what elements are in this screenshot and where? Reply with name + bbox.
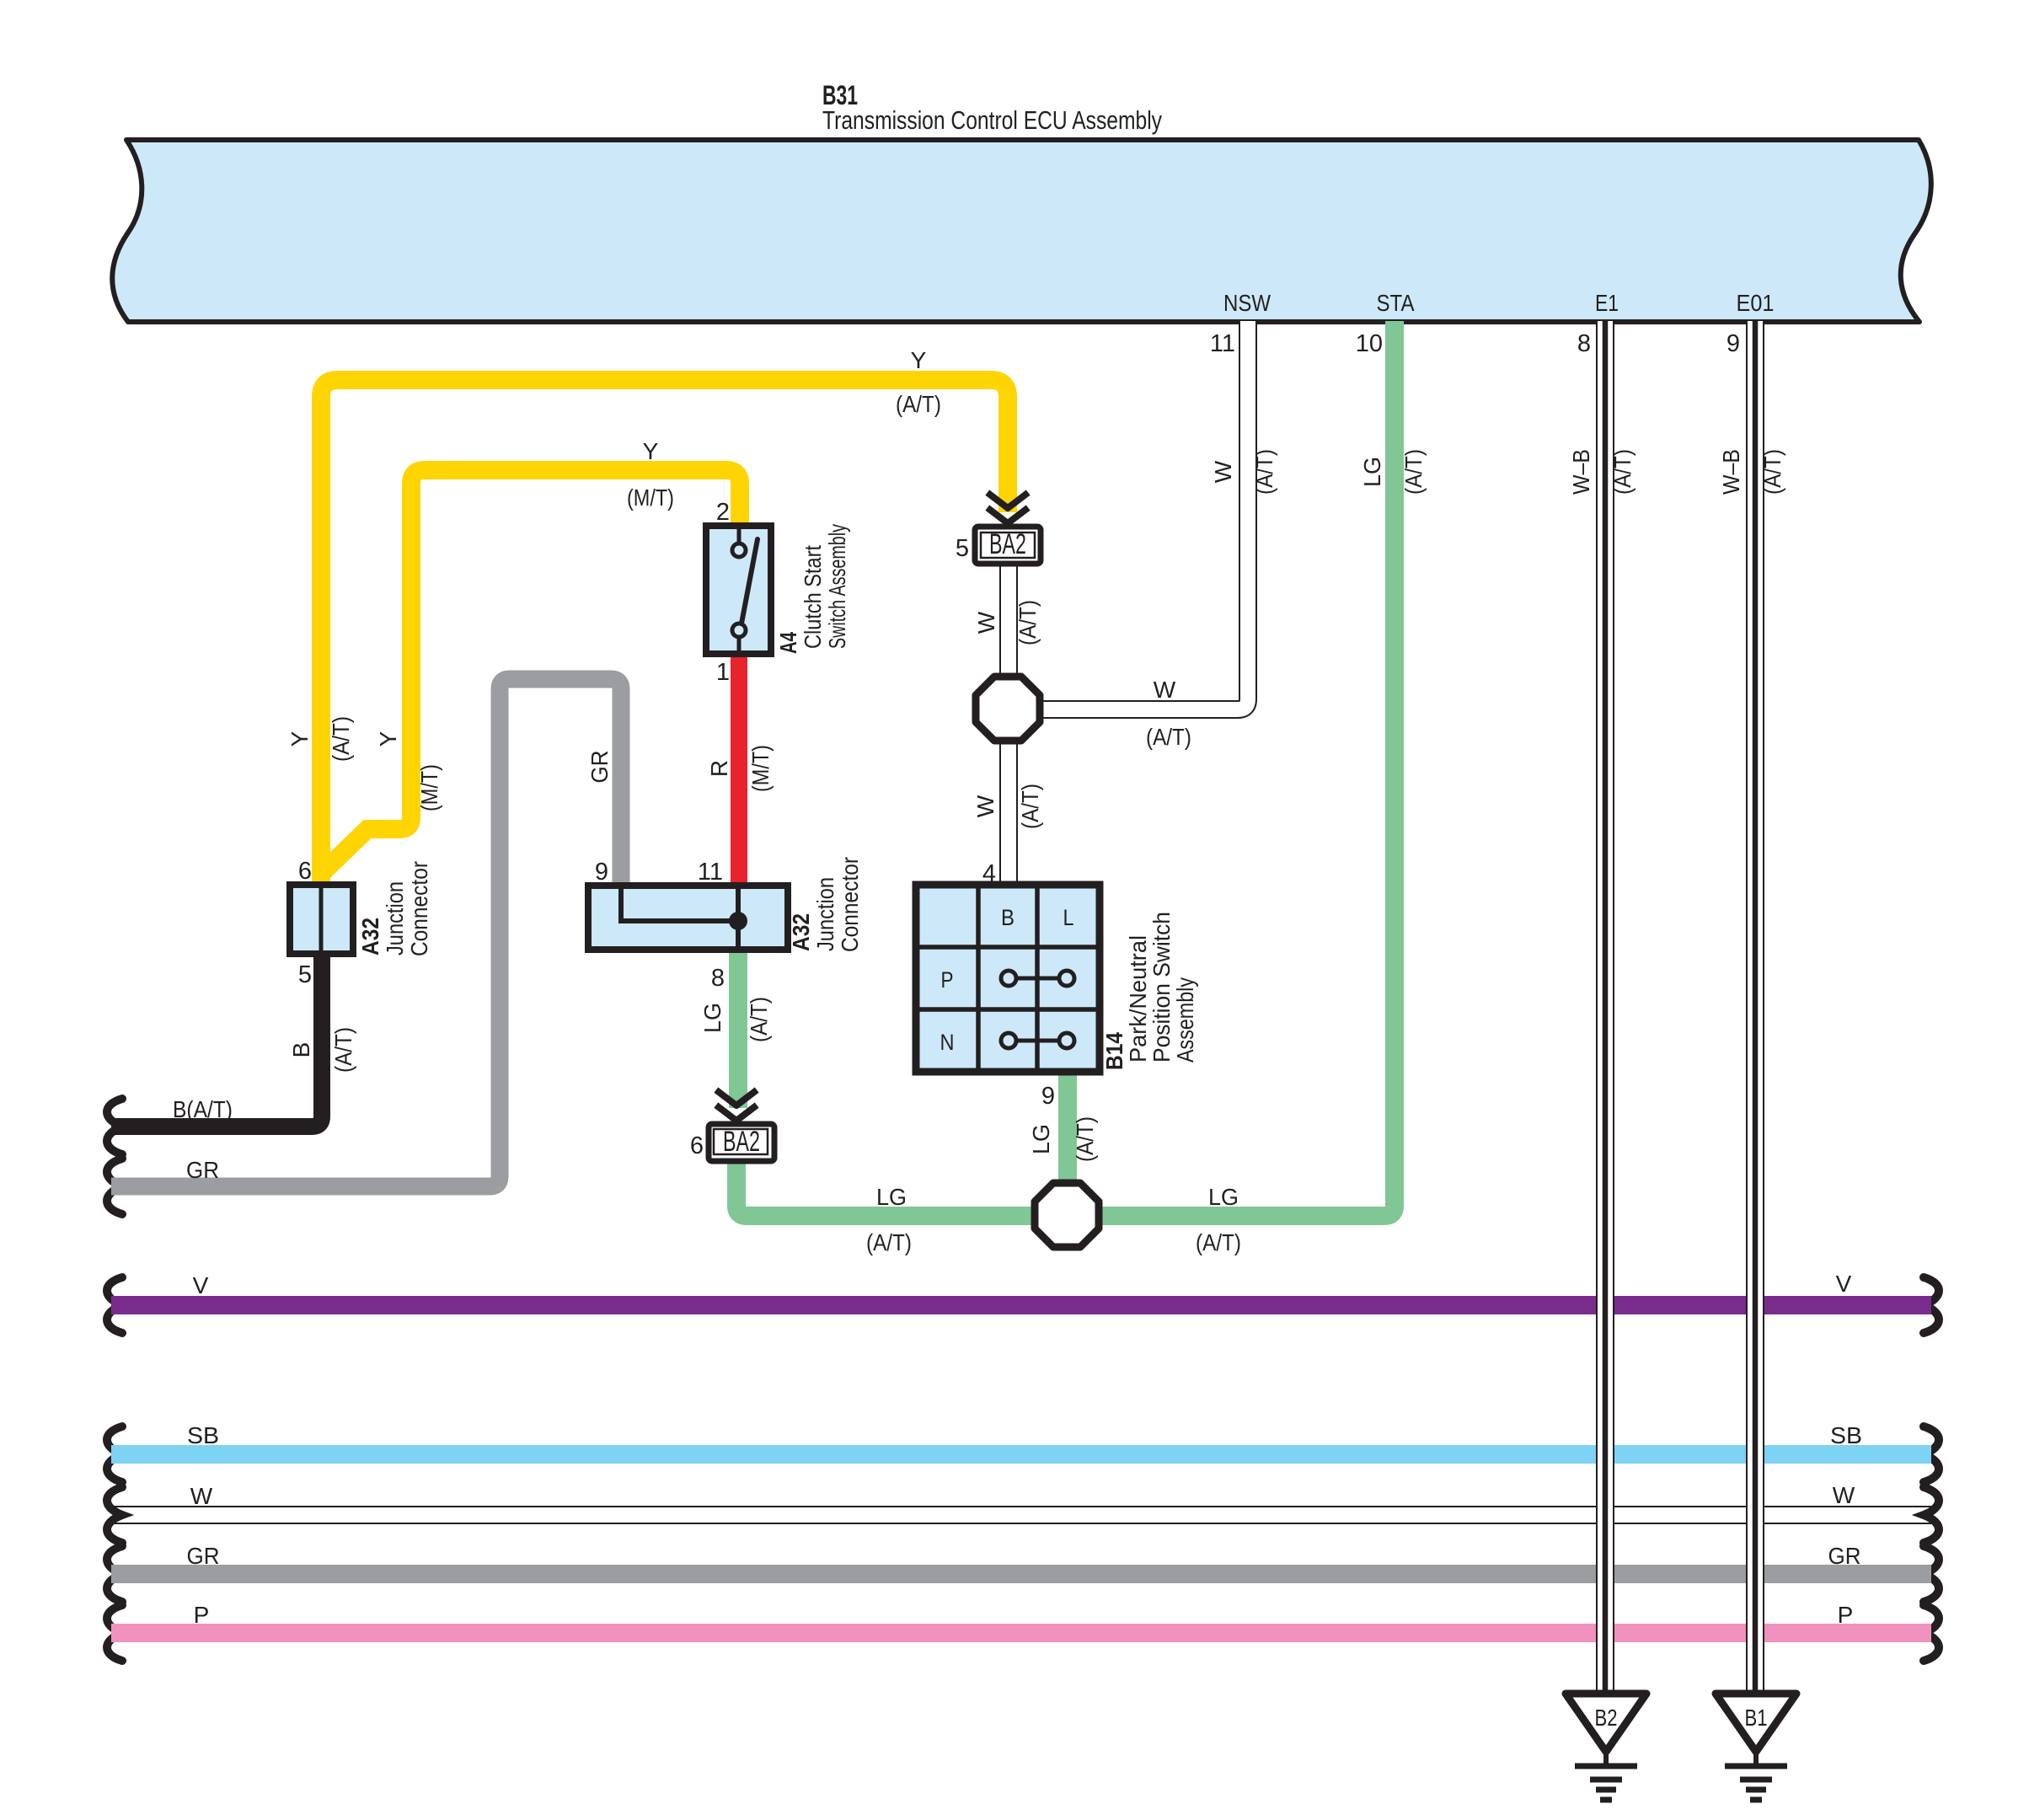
ground B2 bbox=[1566, 1694, 1646, 1752]
svg-text:BA2: BA2 bbox=[989, 528, 1026, 560]
svg-text:(A/T): (A/T) bbox=[330, 1027, 356, 1073]
svg-text:GR: GR bbox=[586, 751, 613, 784]
wire LG (A/T) park/neutral switch pin9 down to splice bbox=[1058, 1072, 1077, 1216]
connector BA2 (bottom, pin6) bbox=[709, 1124, 774, 1161]
splice octagon (W wires junction) bbox=[976, 677, 1040, 741]
wire V horizontal tail bbox=[111, 1296, 1931, 1314]
svg-text:(A/T): (A/T) bbox=[896, 391, 941, 417]
torn end of wire V right bbox=[1924, 1277, 1939, 1333]
svg-text:(A/T): (A/T) bbox=[1400, 449, 1427, 495]
wire SB horizontal tail bbox=[111, 1445, 1931, 1464]
torn end of wire P left bbox=[107, 1605, 122, 1661]
svg-text:6: 6 bbox=[690, 1132, 704, 1159]
svg-text:9: 9 bbox=[595, 859, 608, 886]
svg-text:6: 6 bbox=[298, 858, 312, 885]
torn end of wire W right bbox=[1924, 1487, 1939, 1543]
svg-text:W: W bbox=[1833, 1482, 1855, 1508]
svg-text:(A/T): (A/T) bbox=[1251, 449, 1277, 495]
torn end of wire GR right bbox=[1924, 1546, 1939, 1602]
svg-text:11: 11 bbox=[1210, 330, 1235, 357]
svg-text:STA: STA bbox=[1377, 290, 1415, 316]
svg-text:(A/T): (A/T) bbox=[1072, 1116, 1098, 1162]
svg-text:Y: Y bbox=[375, 731, 401, 747]
svg-text:B2: B2 bbox=[1595, 1705, 1618, 1731]
svg-text:Connector: Connector bbox=[837, 857, 863, 952]
torn end of wire GR (upper) bbox=[107, 1159, 122, 1214]
svg-text:B: B bbox=[288, 1042, 314, 1058]
torn end of wire SB left bbox=[107, 1427, 122, 1482]
svg-text:LG: LG bbox=[1359, 457, 1385, 487]
torn end of wire W left bbox=[107, 1487, 122, 1543]
svg-text:LG: LG bbox=[1028, 1124, 1054, 1154]
svg-text:W–B: W–B bbox=[1568, 449, 1594, 495]
svg-text:B1: B1 bbox=[1745, 1705, 1768, 1731]
svg-text:Clutch Start: Clutch Start bbox=[800, 545, 826, 649]
torn end of wire V left bbox=[107, 1277, 122, 1333]
torn end of wire P right bbox=[1924, 1605, 1939, 1661]
junction connector A32 (left) bbox=[290, 885, 353, 954]
B14 contact row P bbox=[1016, 977, 1059, 981]
svg-text:1: 1 bbox=[716, 659, 730, 686]
svg-text:GR: GR bbox=[186, 1157, 219, 1183]
switch A4 Clutch Start Switch Assembly bbox=[706, 526, 771, 654]
wire Y (A/T) from junction connector A32 pin6 up and right to BA2 arrow bbox=[321, 380, 1008, 886]
svg-text:(M/T): (M/T) bbox=[627, 484, 674, 511]
svg-text:9: 9 bbox=[1727, 330, 1740, 357]
svg-text:Y: Y bbox=[643, 438, 659, 464]
svg-text:5: 5 bbox=[956, 535, 969, 562]
svg-text:LG: LG bbox=[876, 1184, 907, 1210]
arrow chevrons into BA2 (yellow wire) bbox=[990, 495, 1025, 523]
wire W (A/T) ECU pin NSW down and left to splice bbox=[1008, 321, 1248, 709]
svg-text:R: R bbox=[706, 760, 732, 777]
svg-text:A32: A32 bbox=[357, 918, 383, 955]
svg-text:LG: LG bbox=[699, 1003, 725, 1033]
svg-text:(A/T): (A/T) bbox=[1146, 724, 1191, 750]
wire W (A/T) BA2 down through splice to park/neutral switch pin4 bbox=[999, 566, 1018, 885]
svg-text:SB: SB bbox=[1830, 1422, 1862, 1448]
wire W-B (A/T) ECU pin E01 down to ground B1 bbox=[1746, 321, 1764, 1694]
svg-text:B(A/T): B(A/T) bbox=[173, 1096, 233, 1122]
arrow chevrons into BA2 (green wire) bbox=[719, 1092, 754, 1121]
svg-text:(A/T): (A/T) bbox=[1759, 449, 1785, 495]
svg-text:Switch Assembly: Switch Assembly bbox=[824, 524, 850, 649]
svg-text:(A/T): (A/T) bbox=[1014, 600, 1041, 645]
svg-text:(A/T): (A/T) bbox=[866, 1229, 912, 1255]
wire B (A/T) from junction connector A32 pin5 down and left bbox=[111, 954, 322, 1127]
svg-text:W: W bbox=[1210, 460, 1236, 483]
connector BA2 (top, pin5) bbox=[975, 527, 1041, 564]
wire W-B (A/T) ECU pin E1 down to ground B2 bbox=[1596, 321, 1614, 1694]
svg-text:2: 2 bbox=[716, 499, 730, 526]
torn end of wire B(A/T) bbox=[107, 1099, 122, 1154]
svg-text:E01: E01 bbox=[1737, 290, 1775, 316]
splice octagon (LG wires junction) bbox=[1035, 1183, 1099, 1247]
svg-text:9: 9 bbox=[1041, 1083, 1055, 1110]
svg-text:N: N bbox=[940, 1030, 955, 1055]
svg-text:LG: LG bbox=[1208, 1184, 1239, 1210]
wire W horizontal tail (white wire) bbox=[111, 1506, 1931, 1524]
svg-text:11: 11 bbox=[698, 859, 723, 886]
svg-text:P: P bbox=[941, 967, 954, 993]
svg-text:Y: Y bbox=[911, 347, 927, 373]
svg-text:Park/Neutral: Park/Neutral bbox=[1125, 935, 1151, 1063]
svg-text:GR: GR bbox=[1828, 1543, 1861, 1569]
wire LG (A/T) from BA2 through splice right and up to ECU pin STA bbox=[736, 321, 1395, 1216]
B14 contact row N bbox=[1016, 1039, 1059, 1043]
svg-text:8: 8 bbox=[711, 965, 725, 992]
torn end of wire GR left bbox=[107, 1546, 122, 1602]
svg-text:Transmission Control ECU Assem: Transmission Control ECU Assembly bbox=[822, 105, 1162, 135]
svg-text:Junction: Junction bbox=[382, 881, 408, 955]
svg-text:(M/T): (M/T) bbox=[747, 745, 774, 792]
svg-text:W: W bbox=[973, 611, 999, 634]
switch B14 Park/Neutral Position Switch Assembly bbox=[916, 885, 1100, 1072]
svg-text:W–B: W–B bbox=[1718, 449, 1744, 495]
svg-text:(M/T): (M/T) bbox=[416, 764, 442, 811]
svg-text:B14: B14 bbox=[1101, 1032, 1127, 1070]
svg-text:A4: A4 bbox=[775, 632, 801, 654]
svg-text:W: W bbox=[1154, 677, 1176, 703]
svg-text:(A/T): (A/T) bbox=[1017, 784, 1043, 829]
junction connector A32 (middle) bbox=[588, 886, 788, 950]
svg-text:L: L bbox=[1063, 905, 1074, 930]
svg-text:V: V bbox=[1836, 1271, 1852, 1297]
wire Y (M/T) from clutch start switch pin2 left and down joining A/T wire bbox=[319, 470, 740, 876]
svg-text:GR: GR bbox=[187, 1543, 220, 1569]
svg-text:8: 8 bbox=[1577, 330, 1591, 357]
svg-text:Junction: Junction bbox=[812, 877, 838, 951]
svg-text:A32: A32 bbox=[788, 913, 814, 951]
wire GR from left tail up and over to junction connector A32 pin9 bbox=[111, 679, 621, 1186]
svg-text:W: W bbox=[972, 795, 998, 817]
svg-text:(A/T): (A/T) bbox=[746, 997, 772, 1042]
svg-text:5: 5 bbox=[298, 961, 312, 988]
wire GR horizontal tail bbox=[111, 1565, 1931, 1583]
svg-text:10: 10 bbox=[1356, 330, 1383, 357]
svg-text:E1: E1 bbox=[1595, 290, 1619, 316]
svg-text:(A/T): (A/T) bbox=[1196, 1229, 1241, 1255]
svg-text:V: V bbox=[193, 1272, 209, 1298]
wire P horizontal tail bbox=[111, 1624, 1931, 1642]
svg-text:P: P bbox=[194, 1602, 210, 1628]
svg-text:BA2: BA2 bbox=[723, 1126, 760, 1158]
svg-text:Y: Y bbox=[286, 731, 313, 747]
wire R (M/T) clutch switch pin1 to junction connector A32 pin11 bbox=[731, 654, 747, 886]
svg-text:Position Switch: Position Switch bbox=[1148, 912, 1175, 1063]
svg-text:SB: SB bbox=[187, 1422, 219, 1448]
svg-text:Connector: Connector bbox=[406, 861, 432, 956]
ECU B31 Transmission Control ECU Assembly block bbox=[112, 140, 1931, 322]
svg-text:B: B bbox=[1001, 905, 1014, 930]
torn end of wire SB right bbox=[1924, 1427, 1939, 1482]
svg-text:P: P bbox=[1838, 1602, 1854, 1628]
svg-text:NSW: NSW bbox=[1223, 290, 1271, 316]
wire LG (A/T) junction connector A32 pin8 down to BA2 arrow bbox=[729, 950, 747, 1108]
svg-text:Assembly: Assembly bbox=[1172, 977, 1198, 1063]
svg-text:W: W bbox=[190, 1483, 213, 1509]
svg-text:4: 4 bbox=[982, 860, 996, 887]
svg-text:(A/T): (A/T) bbox=[1609, 449, 1636, 495]
ground B1 bbox=[1716, 1694, 1796, 1752]
svg-text:(A/T): (A/T) bbox=[328, 716, 354, 762]
